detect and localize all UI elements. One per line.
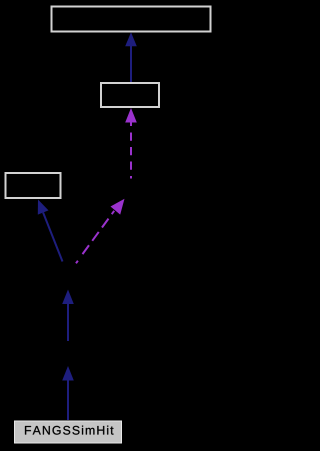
inheritance arrow E3 solid midnightblue: diagonal up-left to left box bbox=[38, 200, 63, 262]
inheritance arrow E6 solid midnightblue: vertical, above FANGSSimHit bbox=[62, 366, 74, 420]
node box middle (unlabeled class) bbox=[101, 83, 159, 107]
inheritance arrow E5 solid midnightblue: vertical, lower middle bbox=[62, 290, 74, 342]
node FANGSSimHit (current class, filled) bbox=[15, 421, 122, 443]
node box left (unlabeled class) bbox=[6, 173, 61, 198]
node box top (unlabeled base class) bbox=[52, 7, 211, 32]
inheritance arrow E1 solid midnightblue: middle box to top box bbox=[125, 32, 137, 82]
template relation arrow E4 dashed darkorchid: diagonal up-right bbox=[76, 199, 125, 263]
template relation arrow E2 dashed darkorchid: vertical below middle box bbox=[125, 108, 137, 179]
